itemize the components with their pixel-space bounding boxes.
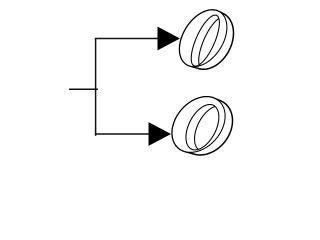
seal ring bot: front inner hole edge [186, 105, 219, 150]
seal ring bot: outer silhouette [172, 97, 232, 155]
arrowhead to top seal [158, 27, 181, 51]
wire: top branch [95, 38, 159, 40]
seal ring bot: front rim outer edge [172, 97, 225, 153]
seal ring top: outer silhouette [180, 10, 234, 69]
seal ring top: front rim outer edge [180, 10, 227, 67]
wire: bottom branch [95, 133, 150, 135]
seal ring top: front inner hole edge [191, 15, 219, 66]
seal ring bot: inner bore back edge [195, 107, 216, 150]
seal ring top: inner bore back edge [199, 19, 219, 65]
arrowhead to bottom seal [149, 122, 172, 146]
wire: left stub [69, 88, 98, 90]
wire: vertical trunk [95, 38, 97, 136]
